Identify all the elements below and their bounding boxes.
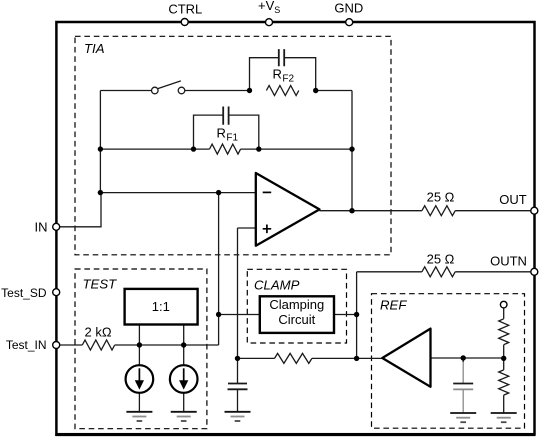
- pin IN: [53, 223, 60, 230]
- wire: test row (Test_IN to vertical): [60, 344, 219, 346]
- svg-text:GND: GND: [334, 1, 363, 16]
- svg-text:Clamping: Clamping: [269, 297, 324, 312]
- resistor reference isolation: [275, 353, 312, 363]
- svg-text:S: S: [274, 5, 280, 15]
- resistor 2 kohm: [82, 340, 114, 350]
- svg-text:1:1: 1:1: [152, 299, 170, 314]
- pin Test_SD: [53, 289, 60, 296]
- REF buffer amplifier (points left): [382, 329, 430, 387]
- TIA block dashed box: [75, 36, 391, 255]
- pin OUT: [531, 207, 538, 214]
- switch S1 contacts: [152, 87, 159, 94]
- svg-text:CTRL: CTRL: [168, 2, 202, 17]
- resistor RF2: [266, 86, 298, 96]
- resistor 25 ohm OUTN: [422, 267, 455, 277]
- wire: inverting input row: [100, 192, 255, 194]
- wire: left feedback vertical: [99, 91, 101, 193]
- pin CTRL: [181, 19, 188, 26]
- svg-text:+V: +V: [258, 0, 275, 13]
- pin +VS: [266, 19, 273, 26]
- svg-text:Test_IN: Test_IN: [6, 338, 47, 352]
- wire: CF2 capacitor branch: [250, 58, 316, 91]
- ground: bypass cap 1: [225, 411, 251, 413]
- capacitor bypass 1 plates: [228, 384, 248, 390]
- wire: clamp/test vertical from inverting node: [218, 193, 220, 345]
- svg-text:R: R: [217, 126, 226, 141]
- pin OUTN: [531, 268, 538, 275]
- wire: non-inverting input vertical: [237, 228, 239, 384]
- ground: current source 1: [126, 411, 152, 413]
- wire: clamp row into clamping circuit: [219, 314, 260, 316]
- wire: RF2 right node to feedback vertical: [316, 90, 352, 92]
- op-amp plus sign: [263, 225, 272, 234]
- REF block dashed box: [372, 294, 525, 429]
- svg-text:Circuit: Circuit: [278, 312, 315, 327]
- wire: output row to OUT pin: [320, 210, 531, 212]
- svg-text:25 Ω: 25 Ω: [427, 190, 455, 205]
- wire: CF1 capacitor branch: [194, 115, 259, 149]
- clamping circuit box: [260, 296, 334, 333]
- svg-text:OUTN: OUTN: [490, 254, 527, 269]
- svg-text:OUT: OUT: [499, 192, 527, 207]
- wire: feedback vertical RF2/RF1/output: [351, 91, 353, 211]
- wire: divider chain: [503, 308, 505, 413]
- ground: bypass cap 2: [450, 412, 476, 414]
- wire: OUTN vertical: [356, 272, 358, 359]
- current source I1: [126, 365, 154, 393]
- divider top terminal: [500, 301, 507, 308]
- CLAMP block dashed box: [247, 269, 346, 343]
- svg-text:Test_SD: Test_SD: [1, 286, 47, 300]
- ground: current source 2: [171, 411, 197, 413]
- wire: transformer secondary leads: [139, 325, 183, 366]
- wire: IN pin to inverting node: [60, 193, 101, 227]
- resistor divider upper: [499, 319, 509, 345]
- op-amp minus sign: [263, 191, 272, 193]
- wire: clamping circuit output to OUTN vertical: [334, 314, 357, 316]
- current source I2: [170, 365, 198, 393]
- svg-text:IN: IN: [35, 219, 48, 234]
- svg-text:REF: REF: [380, 298, 407, 313]
- switch S1 blade: [158, 81, 181, 89]
- capacitor bypass 2 plates: [453, 383, 473, 385]
- svg-text:25 Ω: 25 Ω: [427, 252, 455, 267]
- junction dots: [98, 146, 103, 151]
- wire: switch row to RF2 left node: [100, 90, 249, 92]
- pin Test_IN: [53, 342, 60, 349]
- svg-text:CLAMP: CLAMP: [254, 278, 300, 293]
- capacitor CF2 plates: [279, 49, 284, 66]
- resistor RF1: [210, 144, 241, 154]
- op-amp U1 (TIA amplifier): [256, 173, 320, 246]
- wire: bypass cap 2 branch: [462, 358, 464, 362]
- svg-text:2 kΩ: 2 kΩ: [85, 324, 112, 339]
- svg-text:TEST: TEST: [83, 277, 118, 292]
- svg-text:TIA: TIA: [84, 41, 105, 56]
- capacitor CF1 plates: [223, 107, 228, 125]
- wire: RF1 row: [100, 148, 352, 150]
- wire: non-inverting input row: [238, 227, 256, 229]
- wire: REF amp input row: [431, 357, 504, 359]
- wire: current source leads to ground: [139, 393, 183, 412]
- svg-text:F2: F2: [282, 73, 294, 84]
- svg-text:F1: F1: [226, 133, 238, 144]
- svg-text:R: R: [273, 66, 282, 81]
- wire: bypass cap 1 lower lead: [237, 389, 239, 412]
- resistor 25 ohm OUT: [422, 206, 455, 216]
- wire: OUTN row: [357, 271, 531, 273]
- resistor divider lower: [499, 370, 509, 395]
- transformer 1:1 box: [125, 289, 198, 325]
- pin GND: [346, 19, 353, 26]
- TEST block dashed box: [75, 269, 207, 429]
- ground: divider: [491, 412, 517, 414]
- wire: reference row (+input to REF amp): [238, 357, 383, 359]
